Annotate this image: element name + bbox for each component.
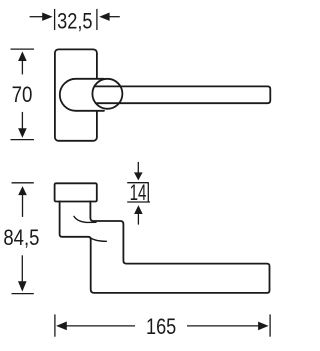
dim 165 left arrow	[66, 325, 135, 327]
dim 84,5 top tick	[12, 182, 34, 184]
dim 165 right arrow	[187, 325, 259, 327]
bend squiggle upper	[74, 216, 96, 222]
dim 32,5 left tick	[54, 9, 56, 30]
dim 14 right bracket	[147, 183, 149, 202]
dim 32,5 right tick	[96, 9, 98, 30]
svg-text:165: 165	[146, 314, 176, 339]
cap side view	[55, 183, 97, 201]
dim 14 bottom tick	[127, 201, 150, 203]
dim 84,5 bottom arrow	[21, 255, 23, 281]
dim 70 bottom arrow	[21, 112, 23, 129]
dim 165 right tick	[269, 314, 271, 336]
dim 14 top tick	[127, 182, 149, 184]
handle neck front view	[60, 79, 104, 111]
svg-text:70: 70	[12, 82, 33, 107]
dim 84,5 top arrow	[22, 195, 24, 217]
dim 165 left tick	[54, 314, 56, 336]
svg-text:32,5: 32,5	[57, 9, 92, 34]
dim 32,5 left arrow	[30, 16, 43, 18]
handle hub circle	[92, 79, 122, 109]
svg-text:84,5: 84,5	[3, 225, 39, 250]
dim 70 top arrow	[21, 61, 23, 75]
handle outline side view	[60, 201, 270, 293]
dim 32,5 right arrow	[110, 16, 120, 18]
svg-text:14: 14	[130, 180, 147, 205]
dim 14 top arrow	[137, 162, 139, 173]
dim 70 top tick	[11, 48, 35, 50]
lever bar front view	[94, 86, 270, 103]
dim 14 bottom arrow	[137, 214, 139, 225]
dim 70 bottom tick	[11, 139, 35, 141]
dim 84,5 bottom tick	[12, 293, 34, 295]
bend squiggle lower	[89, 237, 107, 242]
rosette front view	[55, 49, 97, 140]
